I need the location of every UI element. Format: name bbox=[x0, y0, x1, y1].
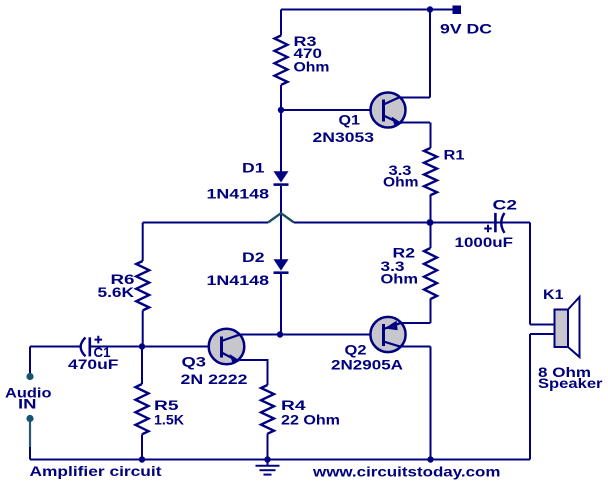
wire right top vertical bbox=[429, 10, 431, 98]
svg-text:2N2905A: 2N2905A bbox=[331, 358, 403, 373]
wire D2 cathode lead to junction bbox=[280, 274, 282, 335]
junction node D2 / Q3 collector / Q2 base bbox=[277, 331, 283, 337]
wire Q3 collector to Q2 base bbox=[238, 334, 371, 336]
svg-text:Q1: Q1 bbox=[339, 113, 361, 128]
svg-text:D2: D2 bbox=[242, 250, 265, 265]
junction node C1 / R6 / R5 bbox=[139, 343, 145, 349]
svg-text:Q2: Q2 bbox=[345, 343, 367, 358]
svg-text:Ohm: Ohm bbox=[294, 60, 330, 75]
wire R6 bottom lead bbox=[142, 311, 144, 347]
wire R3 top lead bbox=[280, 10, 282, 36]
junction node R5 bottom bbox=[139, 456, 145, 462]
capacitor C1 straight plate bbox=[89, 337, 92, 356]
capacitor C1 plus sign bbox=[95, 336, 103, 344]
wire mid rail left of hop bbox=[143, 222, 268, 224]
svg-text:1N4148: 1N4148 bbox=[207, 187, 270, 202]
svg-text:Ohm: Ohm bbox=[383, 175, 419, 190]
diode D1 bbox=[274, 171, 289, 186]
junction node mid rail R1/R2/C2 bbox=[427, 219, 434, 226]
wire top rail bbox=[281, 9, 453, 11]
wire Q3 emitter to R4 bbox=[240, 360, 268, 385]
wire Q1 emitter to rail bbox=[399, 122, 430, 124]
transistor Q3 bbox=[209, 329, 245, 365]
svg-text:5.6K: 5.6K bbox=[98, 285, 135, 300]
svg-text:R1: R1 bbox=[444, 148, 466, 163]
wire mid rail right of hop bbox=[294, 222, 430, 224]
svg-text:1000uF: 1000uF bbox=[455, 234, 514, 250]
svg-text:1N4148: 1N4148 bbox=[207, 273, 270, 288]
wire C1 to Q3 base bbox=[90, 346, 222, 348]
svg-text:1.5K: 1.5K bbox=[154, 413, 184, 428]
wire R3 bottom lead bbox=[280, 85, 282, 110]
wire speaker top stub bbox=[530, 324, 555, 326]
wire R5 bottom lead bbox=[141, 435, 143, 460]
ground bar 1 bbox=[256, 465, 280, 467]
wire hop over D1-D2 line (teal) bbox=[268, 213, 294, 222]
wire audio in bottom to rail (navy part) bbox=[29, 447, 31, 460]
wire Q2 collector to bottom rail bbox=[399, 347, 431, 460]
junction node Q2 collector bottom bbox=[427, 456, 433, 462]
wire Q2 emitter to R2 bbox=[400, 322, 431, 324]
wire audio in top terminal bbox=[29, 347, 31, 374]
wire R2 bottom lead bbox=[430, 299, 432, 324]
wire R1 bottom lead bbox=[430, 195, 432, 223]
svg-text:Q3: Q3 bbox=[182, 355, 207, 370]
svg-text:470uF: 470uF bbox=[68, 357, 119, 372]
svg-text:IN: IN bbox=[18, 397, 37, 412]
ground bar 2 bbox=[260, 469, 276, 471]
svg-text:D1: D1 bbox=[242, 161, 265, 176]
wire C1 input left bbox=[30, 346, 80, 348]
wire Q1 base bbox=[281, 109, 383, 111]
diode D2 bbox=[274, 259, 289, 274]
resistor R2 bbox=[424, 248, 437, 299]
resistor R5 bbox=[136, 384, 149, 434]
resistor R6 bbox=[136, 261, 149, 310]
junction node R4 bottom / ground bbox=[264, 456, 270, 462]
junction node R3 bottom / Q1 base bbox=[278, 107, 284, 113]
svg-text:R5: R5 bbox=[154, 398, 179, 413]
transistor Q2 bbox=[370, 317, 405, 352]
capacitor C2 straight plate bbox=[494, 213, 497, 232]
transistor Q1 bbox=[371, 93, 406, 128]
wire right rail speaker to bottom bbox=[529, 334, 531, 460]
wire D1 to D2 vertical through hop bbox=[280, 186, 282, 260]
speaker K1 horn bbox=[568, 297, 580, 357]
svg-text:9V DC: 9V DC bbox=[440, 20, 492, 36]
svg-text:Speaker: Speaker bbox=[538, 376, 603, 391]
wire audio in lower vertical (teal) bbox=[29, 422, 31, 448]
svg-text:22 Ohm: 22 Ohm bbox=[281, 413, 340, 428]
junction node top rail bbox=[427, 6, 433, 12]
svg-text:www.circuitstoday.com: www.circuitstoday.com bbox=[312, 464, 501, 480]
wire mid rail to C2 and right rail bbox=[430, 222, 530, 224]
wire speaker bottom stub bbox=[530, 333, 555, 335]
wire R6 top lead bbox=[142, 223, 144, 262]
svg-text:K1: K1 bbox=[543, 287, 564, 302]
capacitor C2 plus sign bbox=[484, 225, 492, 233]
resistor R4 bbox=[261, 385, 274, 434]
speaker K1 body bbox=[555, 310, 569, 348]
wire R1 top lead bbox=[430, 123, 432, 149]
wire Q1 collector to rail bbox=[399, 97, 430, 99]
svg-text:2N3053: 2N3053 bbox=[313, 130, 375, 145]
capacitor C1 curved plate bbox=[81, 338, 86, 357]
svg-text:Amplifier circuit: Amplifier circuit bbox=[30, 463, 162, 479]
svg-text:C2: C2 bbox=[493, 198, 518, 213]
wire R4 bottom lead bbox=[267, 434, 269, 460]
svg-text:R4: R4 bbox=[281, 398, 306, 413]
wire R2 top lead bbox=[430, 223, 432, 249]
wire right rail down to speaker top bbox=[529, 223, 531, 325]
resistor R3 bbox=[275, 36, 288, 85]
audio in top terminal dot bbox=[26, 373, 33, 380]
svg-text:2N 2222: 2N 2222 bbox=[181, 372, 248, 387]
audio in bottom terminal dot bbox=[26, 415, 33, 422]
ground stem bbox=[267, 460, 269, 466]
resistor R1 bbox=[424, 148, 437, 195]
battery terminal 9V bbox=[453, 6, 462, 15]
wire D1 anode lead bbox=[280, 110, 282, 172]
wire bottom rail bbox=[30, 459, 530, 461]
capacitor C2 curved plate bbox=[501, 213, 504, 233]
svg-text:Ohm: Ohm bbox=[381, 272, 419, 287]
wire R5 top lead bbox=[141, 347, 143, 385]
ground bar 3 bbox=[264, 474, 272, 476]
